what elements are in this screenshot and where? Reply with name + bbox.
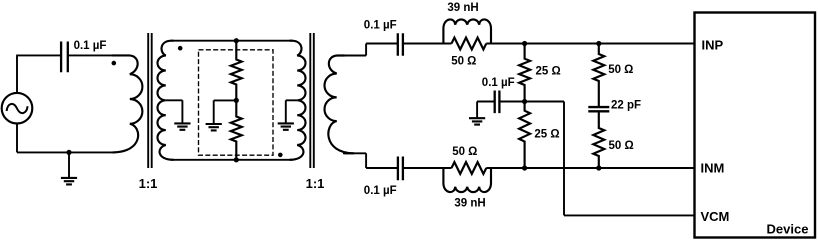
svg-text:0.1 µF: 0.1 µF [364, 20, 397, 32]
svg-text:1:1: 1:1 [139, 176, 158, 191]
svg-text:50 Ω: 50 Ω [452, 146, 477, 158]
wire INP right [486, 43, 694, 45]
junction bottom middle [234, 157, 239, 162]
node VCM divider [522, 99, 527, 104]
device box [695, 13, 816, 238]
phase dot T1 secondary [178, 46, 183, 51]
resistor 50 Ohm (INM series) [452, 162, 487, 174]
dashed termination box [199, 50, 274, 155]
svg-text:0.1 µF: 0.1 µF [74, 40, 107, 52]
transformer T2 secondary winding [325, 56, 355, 154]
node center tap [234, 98, 239, 103]
ground (VCM cap) [469, 118, 485, 124]
AC source [2, 93, 33, 124]
wire T2 sec bottom jog [343, 153, 366, 168]
svg-text:VCM: VCM [701, 209, 730, 224]
wire INM right [486, 167, 694, 169]
resistor 50 Ohm (shunt upper) [593, 44, 604, 108]
svg-text:39 nH: 39 nH [447, 2, 478, 14]
svg-text:0.1 µF: 0.1 µF [482, 77, 515, 89]
capacitor 22 pF [588, 107, 609, 111]
svg-text:1:1: 1:1 [306, 176, 325, 191]
wire VCM [525, 102, 695, 216]
wire node to VCM cap [499, 101, 524, 103]
wire source top [16, 55, 60, 93]
transformer T2 core [310, 33, 314, 168]
svg-text:25 Ω: 25 Ω [536, 65, 561, 77]
ground (source) [61, 152, 77, 184]
ground (T2 primary center tap) [278, 100, 298, 130]
junction INP 25 Ohm [522, 41, 527, 46]
junction INP 50 Ohm [596, 41, 601, 46]
svg-text:50 Ω: 50 Ω [609, 140, 634, 152]
capacitor 0.1 uF (INM) [398, 157, 403, 181]
resistor 25 Ohm (lower) [519, 102, 530, 169]
transformer T1 primary winding [112, 55, 142, 152]
svg-text:0.1 µF: 0.1 µF [364, 185, 397, 197]
svg-text:50 Ω: 50 Ω [451, 56, 476, 68]
wire VCM cap to ground [477, 102, 495, 118]
transformer T1 core [148, 33, 152, 168]
wire INM left [366, 167, 398, 169]
wire cap to R/L block [403, 43, 452, 45]
resistor 50 Ohm (INP series) [452, 38, 487, 50]
resistor (upper termination) [231, 41, 242, 101]
phase dot T1 primary [112, 61, 117, 66]
inductor 39 nH (INM) [443, 168, 491, 192]
capacitor 0.1 uF (INP) [398, 33, 403, 55]
phase dot T2 primary [278, 153, 283, 158]
junction INM 50 Ohm [596, 165, 601, 170]
ground (T1 secondary center tap) [166, 100, 191, 130]
svg-text:50 Ω: 50 Ω [608, 64, 633, 76]
wire T2 sec top jog [343, 44, 366, 56]
wire cap to R/L block (INM) [403, 167, 452, 169]
svg-text:25 Ω: 25 Ω [534, 128, 559, 140]
wire source bottom [17, 124, 116, 153]
wire cap to T1 [68, 54, 113, 56]
capacitor 0.1 uF (source) [61, 42, 68, 73]
inductor 39 nH (INP) [443, 19, 491, 43]
ground (termination center) [206, 100, 237, 130]
junction source ground [66, 150, 71, 155]
svg-text:INM: INM [701, 161, 725, 176]
junction INM 25 Ohm [522, 165, 527, 170]
wire bottom middle [171, 159, 293, 161]
svg-text:Device: Device [767, 221, 809, 236]
transformer T1 secondary winding [158, 41, 174, 160]
wire top middle [171, 40, 293, 42]
svg-text:22 pF: 22 pF [611, 99, 641, 111]
resistor (lower termination) [231, 100, 242, 159]
resistor 50 Ohm (shunt lower) [593, 111, 604, 168]
junction top middle [234, 38, 239, 43]
transformer T2 primary winding [290, 41, 306, 160]
capacitor 0.1 uF (VCM) [495, 91, 500, 114]
wire INP left [366, 43, 398, 45]
svg-text:39 nH: 39 nH [454, 198, 485, 210]
resistor 25 Ohm (upper) [519, 44, 530, 102]
svg-text:INP: INP [702, 37, 724, 52]
